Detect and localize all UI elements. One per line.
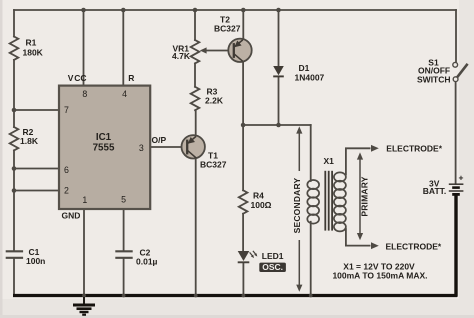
wire: top rail to D1 [278,10,280,66]
svg-text:BC327: BC327 [214,23,241,33]
wire: R4 to LED1 [242,214,244,251]
svg-text:100Ω: 100Ω [251,200,272,210]
svg-text:O/P: O/P [152,135,167,145]
node: top rail / T2 [241,8,246,13]
wire: X1 secondary bottom to ground rail [310,222,312,294]
svg-text:5: 5 [121,194,126,204]
node: left wire / pin2 [12,188,17,193]
node: top rail / pin8 [81,8,86,13]
wire: O/P pin3 to T1 base [150,146,186,148]
diode D1 [273,66,284,76]
resistor R1 [10,37,19,60]
svg-text:2: 2 [64,186,69,196]
capacitor C1 label [26,247,45,266]
wire: X1 primary bottom lead to electrode arrow [346,229,370,246]
svg-text:0.01µ: 0.01µ [136,256,158,266]
node: ground rail / T1 collector [194,294,198,298]
svg-text:X1: X1 [324,156,335,166]
svg-text:D1: D1 [299,63,310,73]
electrode arrow (bottom) [371,241,442,251]
svg-text:+: + [459,172,464,182]
svg-text:1N4007: 1N4007 [295,73,325,83]
wire: node down to X1 secondary top [310,125,312,181]
switch S1 [453,62,468,81]
switch S1 label [417,57,451,84]
wire: Vcc drop to pin 8 [83,10,85,85]
potentiometer VR1 [191,40,200,63]
electrode arrow (top) [371,143,443,153]
wire: C1 to ground rail [13,259,15,296]
node: left wire / pin7 [12,108,17,113]
capacitor C2 label [136,248,158,267]
ground rail (thick) [13,294,457,297]
svg-text:100mA TO 150mA MAX.: 100mA TO 150mA MAX. [332,270,427,280]
transistor T2 label [214,15,241,34]
svg-text:PRIMARY: PRIMARY [360,176,370,216]
wire: left column top (Vcc to R1) [13,10,15,37]
svg-text:CC: CC [74,73,86,83]
wire: top rail corner down to switch S1 [455,10,457,62]
wire: battery negative to ground rail (thick) [454,195,457,297]
node: D1 anode on node wire [276,123,281,128]
node: top rail / pin4 [121,8,126,13]
secondary winding [307,180,319,224]
svg-text:4: 4 [122,89,127,99]
resistor R4 label [251,191,272,211]
primary winding [334,172,346,231]
op-amp: none; IC1 7555 timer body [59,86,150,209]
node: left wire / pin6 [12,166,17,171]
wire: LED1 to ground rail [242,263,244,296]
svg-text:6: 6 [64,165,69,175]
potentiometer VR1 label [172,43,191,61]
svg-text:180K: 180K [23,47,44,57]
resistor R1 label [23,38,44,58]
node: ground rail / C2 [122,294,126,298]
wire: R2 to C1 [13,150,15,250]
diode D1 label [295,63,325,83]
resistor R2 [10,127,19,150]
svg-text:4.7K: 4.7K [172,51,191,61]
svg-text:7555: 7555 [93,143,115,154]
svg-text:OSC.: OSC. [262,262,283,272]
svg-text:ELECTRODE*: ELECTRODE* [386,241,442,251]
wire: top rail to VR1 [194,10,196,40]
svg-text:SECONDARY: SECONDARY [292,177,302,233]
svg-text:LED1: LED1 [262,251,284,261]
svg-text:100n: 100n [26,256,45,266]
svg-text:IC1: IC1 [96,132,112,143]
wire: X1 primary top lead to electrode arrow [346,148,370,174]
note: X1 ratings [332,262,427,281]
wire: T2 collector to node [242,62,244,125]
capacitor C1 [7,250,22,252]
transformer X1 [307,156,346,231]
svg-text:R: R [128,73,134,83]
primary span indicator [357,152,370,240]
svg-text:7: 7 [64,105,69,115]
VR1 wiper arrowhead [200,47,207,53]
wire: pin 6 stub [14,168,58,170]
battery BATT 3V [449,172,464,194]
wire: D1 to node [278,77,280,125]
transistor T1 (BC327) [182,135,205,158]
wire: node to R4 [242,125,244,190]
svg-text:R4: R4 [253,191,264,201]
wire: pin 5 to C2 [123,209,125,251]
wire: node horizontal (T2 collector / D1 / secondary) [243,124,311,126]
node: ground rail / pin1 [82,294,86,298]
resistor R3 [191,87,200,110]
svg-text:2.2K: 2.2K [205,95,224,105]
wire: VR1 wiper to T2 base [205,50,230,52]
svg-text:3: 3 [139,143,144,153]
svg-text:ELECTRODE*: ELECTRODE* [386,143,442,153]
wire: VR1 to R3 [194,63,196,86]
wire: switch S1 to battery [455,82,457,184]
wire: R1 to R2 (node pin7) [13,60,15,127]
OSC. tag [259,262,286,272]
wire: R drop to pin 4 [122,10,124,85]
wire: pin 1 to ground rail [83,209,85,296]
wire: top rail to T2 emitter [242,10,244,39]
node: ground rail / LED1 [242,294,246,298]
node: T2 collector / R4 / D1 [241,123,246,128]
LED1 [238,251,258,262]
core [325,171,332,231]
wire: pin 2 stub [14,190,58,192]
battery label [423,178,446,196]
wire: C2 to ground rail [123,259,125,296]
svg-text:V: V [68,73,74,83]
wire: T1 collector to ground rail [195,158,197,295]
resistor R4 [239,190,248,213]
transistor T1 label [200,151,227,170]
svg-text:8: 8 [82,89,87,99]
transistor T2 (BC327) [228,39,251,62]
svg-text:GND: GND [62,210,81,220]
svg-text:1.8K: 1.8K [20,136,39,146]
ground [73,297,95,315]
node: top rail / D1 [276,8,281,13]
svg-text:R1: R1 [26,38,37,48]
wire: pin 7 stub [14,109,58,111]
wire: R3 to T1 emitter [195,110,197,135]
resistor R2 label [20,127,39,146]
node: top rail / VR1 [193,8,198,13]
svg-text:BC327: BC327 [200,160,227,170]
node: ground rail / secondary [309,294,313,298]
svg-text:SWITCH: SWITCH [417,74,451,84]
svg-text:1: 1 [82,195,87,205]
label Vcc [68,73,87,83]
wire: top supply rail [14,9,456,11]
secondary span indicator [292,126,303,291]
capacitor C2 [116,250,131,252]
resistor R3 label [205,87,224,106]
svg-text:BATT.: BATT. [423,186,446,196]
